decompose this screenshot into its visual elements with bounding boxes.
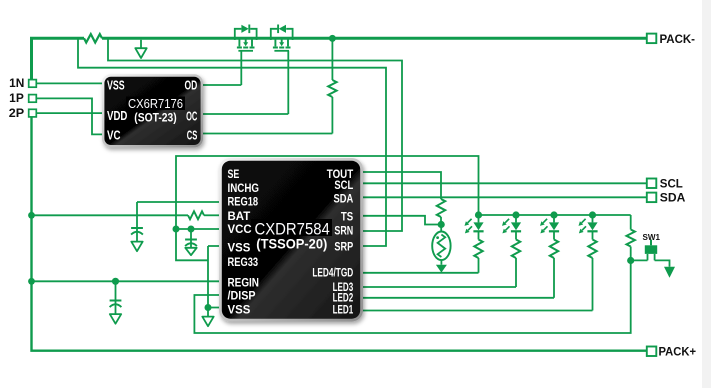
svg-text:SRP: SRP [334, 239, 353, 253]
U1 part name [128, 96, 183, 125]
resistor R1 (rail to CS) [328, 38, 336, 133]
svg-text:REG18: REG18 [228, 194, 259, 208]
svg-text:1N: 1N [9, 78, 24, 90]
svg-text:SCL: SCL [334, 178, 353, 192]
svg-text:SRN: SRN [334, 224, 353, 238]
wire LED2 return [362, 297, 555, 299]
U2 pin labels right [312, 167, 353, 317]
wire OD to Q1 gate [203, 84, 241, 86]
svg-text:SE: SE [228, 167, 240, 181]
node bus-REGIN [28, 278, 35, 285]
wire 1P to VC [37, 98, 103, 134]
wire PACK- rail (top thick) [32, 38, 647, 79]
wire REG18 to C1 [137, 201, 220, 203]
transistor Q2 (power MOSFET with body diode) [271, 25, 293, 115]
svg-text:OD: OD [185, 78, 198, 92]
LED D3 [540, 211, 559, 297]
svg-text:SDA: SDA [660, 193, 686, 205]
terminal PACK+ [647, 346, 696, 358]
U2 pin labels left [228, 167, 260, 317]
svg-text:VSS: VSS [107, 78, 125, 92]
node N1 on PACK- rail [329, 35, 336, 42]
node VCC [173, 226, 180, 233]
wire LED anode rail [479, 214, 631, 216]
wire OC to Q2 gate [203, 113, 288, 115]
svg-text:VDD: VDD [107, 109, 127, 123]
wire /DISP to SW1 [194, 261, 630, 334]
transistor Q1 (power MOSFET with body diode) [235, 25, 257, 86]
wire TS [362, 216, 442, 225]
wire VSS net (VCC node to VSS pins) [176, 229, 220, 308]
page right margin strip [702, 0, 711, 388]
svg-text:(SOT-23): (SOT-23) [134, 113, 177, 125]
resistor R4 (rail to SW1) [627, 215, 635, 261]
op IC U2 CXDR7584 (TSSOP-20) fuel gauge [219, 158, 363, 322]
terminal 2P [9, 108, 37, 120]
ground below VSS [202, 308, 213, 327]
wire SDA [362, 196, 647, 198]
svg-text:REGIN: REGIN [228, 275, 260, 289]
wire REGIN [32, 280, 220, 282]
terminal PACK- [647, 34, 695, 46]
node SW1//DISP [627, 257, 634, 264]
svg-text:VC: VC [107, 128, 121, 142]
wire TOUT with resistor R3 [362, 172, 446, 225]
node VSS [205, 304, 212, 311]
svg-text:BAT: BAT [228, 209, 251, 223]
svg-text:VCC: VCC [228, 222, 252, 236]
wire SRP sense (shunt left node to SRP pin) [78, 38, 386, 246]
capacitor C3 (REGIN) [110, 281, 122, 323]
wire PACK+ rail (bottom) with left bus [32, 116, 647, 351]
svg-text:CS: CS [187, 128, 198, 142]
wire LED3 return [362, 286, 517, 288]
svg-text:TS: TS [341, 210, 353, 224]
wire BAT with resistor R2 [32, 211, 220, 219]
terminal 1P [9, 93, 36, 105]
diode D5 (rail clamp arrow) [135, 40, 146, 58]
node C3 tap [112, 278, 119, 285]
LED D4 [579, 211, 598, 310]
svg-text:/DISP: /DISP [228, 288, 256, 302]
terminal 1N [9, 78, 36, 90]
capacitor C2 (VCC) [185, 229, 197, 255]
node C2 tap [188, 226, 195, 233]
wire LED4/TGD return [362, 272, 479, 274]
svg-text:LED1: LED1 [333, 303, 354, 317]
svg-text:VSS: VSS [228, 240, 251, 254]
wire VCC node feed (to LED anode rail) [176, 156, 479, 229]
svg-text:OC: OC [186, 110, 197, 124]
wire VCC pin [176, 228, 220, 230]
terminal SDA [647, 193, 686, 205]
svg-text:PACK+: PACK+ [659, 346, 697, 358]
wire SRN sense (shunt right node to SRN pin) [108, 38, 402, 231]
svg-text:SW1: SW1 [643, 232, 661, 242]
wire LED1 return [362, 310, 593, 312]
svg-text:VSS: VSS [228, 303, 251, 317]
LED D1 [465, 211, 484, 272]
op IC U1 CX6R7176 (SOT-23) protector [102, 74, 203, 147]
wire SCL [362, 182, 647, 184]
switch SW1 (push button) [631, 240, 675, 278]
svg-text:INCHG: INCHG [228, 181, 260, 195]
resistor RS current shunt on PACK- rail [84, 34, 102, 42]
U2 part name [255, 220, 330, 252]
U1 pin labels [107, 78, 197, 142]
svg-text:PACK-: PACK- [660, 34, 696, 46]
svg-text:(TSSOP-20): (TSSOP-20) [256, 236, 327, 252]
wire CS [203, 133, 332, 135]
wire 2P to VDD [37, 112, 103, 114]
thermistor RT1 [432, 225, 450, 273]
terminal SCL [647, 179, 683, 191]
svg-text:CX6R7176: CX6R7176 [128, 96, 183, 111]
LED D2 [502, 211, 521, 287]
svg-text:REG33: REG33 [228, 255, 259, 269]
wire 1N to VSS [37, 82, 103, 84]
svg-text:SCL: SCL [660, 179, 683, 191]
svg-text:LED4/TGD: LED4/TGD [312, 266, 353, 280]
svg-text:2P: 2P [9, 108, 25, 120]
capacitor C1 (REG18) [131, 202, 143, 251]
svg-text:SDA: SDA [334, 191, 354, 205]
node bus-BAT [28, 212, 35, 219]
node TS/thermistor [438, 221, 445, 228]
svg-text:1P: 1P [9, 93, 24, 105]
